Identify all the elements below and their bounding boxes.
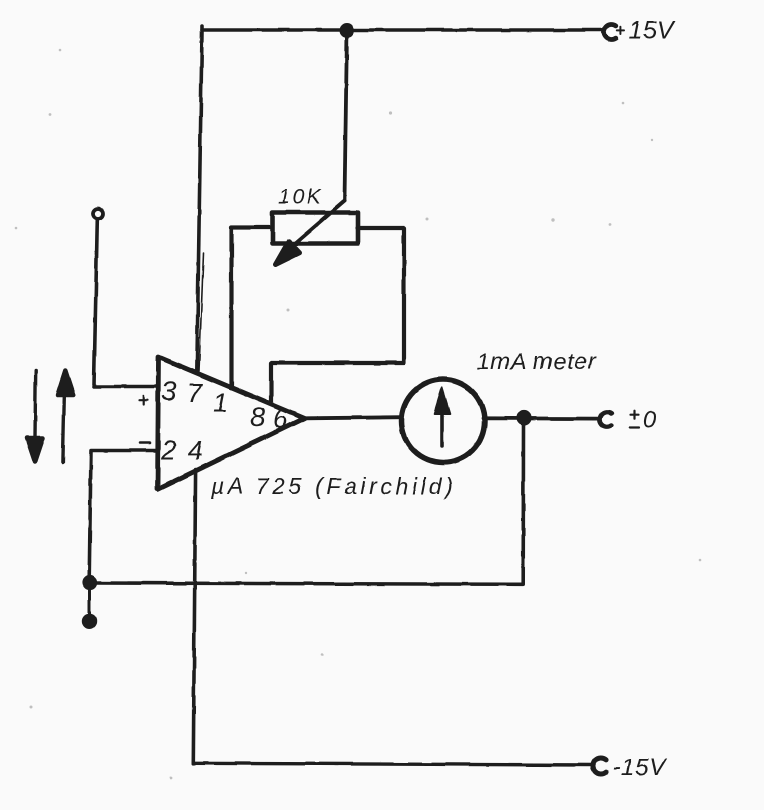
arrow input current up — [58, 371, 74, 463]
node output junction — [517, 411, 531, 425]
wire junction to potentiometer wiper — [345, 31, 348, 201]
wire top +15V rail — [202, 28, 601, 31]
wire pin 4 to -15V rail — [193, 470, 195, 764]
wire bottom -15V rail — [193, 763, 594, 765]
svg-text:-15V: -15V — [612, 754, 668, 781]
terminal +15V — [604, 25, 624, 40]
svg-text:10K: 10K — [278, 185, 324, 209]
wire meter to output terminal — [483, 416, 599, 420]
label + noninverting input — [139, 395, 148, 404]
node junction on +15V rail — [340, 24, 354, 38]
meter M1 needle arrow — [434, 388, 450, 447]
wire pin 2 to feedback node — [89, 451, 158, 581]
svg-text:1mA meter: 1mA meter — [477, 348, 597, 374]
svg-text:8: 8 — [250, 402, 265, 432]
svg-text:7: 7 — [187, 378, 203, 408]
wire input terminal to pin 3 — [94, 220, 159, 387]
terminal -15V — [593, 758, 606, 774]
potentiometer R1 wiper arrow — [276, 201, 345, 265]
svg-text:4: 4 — [188, 436, 203, 466]
svg-text:µA 725 (Fairchild): µA 725 (Fairchild) — [210, 473, 457, 499]
wire R1 right terminal to pin 8 — [271, 228, 404, 402]
potentiometer R1 body — [273, 213, 359, 244]
op-amp U1 uA725 triangle — [158, 357, 305, 489]
svg-text:2: 2 — [160, 436, 176, 466]
wire R1 left terminal to pin 1 — [232, 228, 273, 386]
terminal output 0V — [599, 412, 611, 427]
svg-text:15V: 15V — [629, 17, 676, 45]
label - inverting input — [140, 442, 150, 445]
wire junction to bottom-left terminal — [88, 589, 91, 615]
label output plus-minus 0 — [630, 407, 657, 434]
wire pin7 to +15V rail — [197, 26, 202, 372]
wire output node to feedback junction — [90, 423, 524, 584]
wire op-amp output to meter — [304, 417, 402, 418]
svg-text:0: 0 — [643, 407, 657, 434]
svg-text:6: 6 — [273, 404, 289, 434]
terminal input bottom-left — [82, 614, 96, 628]
terminal input top-left — [93, 209, 103, 219]
meter M1 1mA body — [402, 380, 485, 463]
svg-text:1: 1 — [213, 388, 228, 418]
arrow input current down — [27, 371, 43, 463]
svg-text:3: 3 — [161, 377, 176, 407]
node feedback junction — [83, 576, 97, 590]
